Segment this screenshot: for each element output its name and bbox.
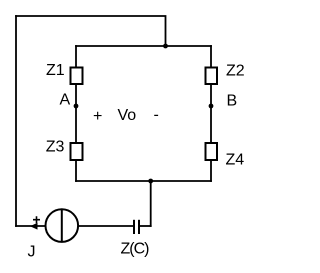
resistor Z3 [71, 143, 83, 160]
svg-text:A: A [60, 92, 71, 109]
resistor Z1 [71, 68, 83, 85]
resistor Z4 [206, 143, 218, 160]
capacitor Z(C) left plate [133, 220, 135, 234]
svg-text:Vo: Vo [118, 107, 137, 124]
wire outer top [16, 16, 166, 46]
wire bridge top [76, 45, 211, 47]
node junction bottom [148, 179, 153, 184]
wire source to outer left [16, 225, 45, 227]
capacitor Z(C) right plate [138, 220, 140, 234]
wire bridge right: top stub into Z2 [210, 46, 212, 68]
svg-text:Z1: Z1 [46, 62, 65, 79]
wire Z3 bottom stub [75, 160, 77, 181]
svg-text:B: B [227, 92, 238, 109]
wire Z1 to node A to Z3 [75, 84, 77, 143]
wire capacitor left plate to source [79, 225, 134, 227]
resistor Z2 [206, 68, 218, 85]
svg-text:-: - [154, 107, 159, 124]
svg-text:Z4: Z4 [226, 152, 245, 169]
svg-text:Z3: Z3 [46, 138, 65, 155]
source J circle [46, 209, 79, 242]
wire bridge bottom [76, 180, 211, 182]
wire bridge left: top stub into Z1 [75, 46, 77, 68]
node A [74, 104, 79, 109]
source J internal bar [61, 210, 63, 242]
svg-text:Z(C): Z(C) [121, 241, 150, 258]
wire outer left [15, 16, 17, 226]
wire Z2 to node B to Z4 [210, 84, 212, 143]
wire junction to capacitor right plate [139, 225, 151, 227]
svg-text:Z2: Z2 [226, 63, 245, 80]
source polarity arrow [30, 223, 38, 230]
source polarity plus [33, 216, 40, 223]
svg-text:+: + [93, 108, 102, 125]
node junction top [163, 44, 168, 49]
wire capacitor drop from bottom junction [150, 181, 152, 226]
wire Z4 bottom stub [210, 160, 212, 181]
node B [209, 104, 214, 109]
svg-text:J: J [28, 244, 36, 261]
